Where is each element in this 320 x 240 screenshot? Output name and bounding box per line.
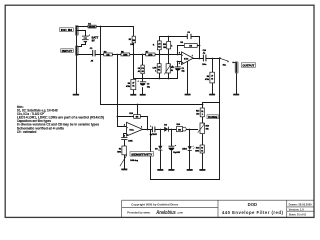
potentiometer R16 range [198, 123, 209, 134]
resistor R4 [104, 50, 113, 56]
wire R11 column rail to row to trimmer [168, 37, 170, 79]
node R11 tap junction [168, 54, 170, 56]
svg-text:R13: R13 [196, 111, 199, 113]
resistor R6 [180, 42, 197, 48]
wire battery positive from DC jack [78, 31, 86, 36]
wire tee to range network [203, 103, 220, 105]
svg-text:C9 : estimated: C9 : estimated [17, 130, 37, 134]
svg-text:1: 1 [141, 126, 142, 128]
node R4 R5 junction [117, 54, 119, 56]
svg-text:C3: C3 [147, 83, 149, 85]
capacitor C6 [187, 32, 191, 39]
svg-text:LED1: LED1 [182, 148, 187, 150]
wire bias stub to R10 [137, 105, 139, 115]
node IC1b output junction [199, 58, 201, 60]
svg-text:100k: 100k [195, 151, 199, 153]
wire LED1 column [189, 130, 191, 169]
svg-text:R9: R9 [207, 76, 209, 78]
diode D1 [88, 24, 96, 29]
svg-text:6: 6 [179, 53, 180, 55]
connector J2 INPUT jack [75, 46, 78, 56]
wire R13 column [202, 105, 204, 124]
svg-text:RANGE: RANGE [208, 115, 217, 119]
svg-text:10k: 10k [206, 129, 209, 131]
svg-text:DC IN: DC IN [61, 28, 72, 32]
ground D3 [157, 169, 163, 171]
svg-text:Version: 1.0: Version: 1.0 [289, 207, 305, 211]
wire IC1b power pin to ground [187, 61, 189, 94]
node IC1b inverting input junction [177, 54, 179, 56]
wire IC1a non-inverting input to C2 [124, 134, 127, 147]
svg-text:470k: 470k [205, 78, 209, 81]
svg-text:SENSITIVITY: SENSITIVITY [131, 152, 152, 156]
label INPUT [61, 49, 74, 53]
wire switch throw to output jack tip [233, 61, 235, 63]
diode D2 [164, 124, 168, 131]
resistor R14 [177, 123, 187, 132]
title block frame [122, 200, 314, 217]
svg-text:5k: 5k [171, 70, 173, 72]
svg-text:C8: C8 [138, 68, 140, 70]
svg-text:.com: .com [177, 211, 184, 214]
photoresistor LDR2 [153, 41, 161, 50]
switch S1a [219, 57, 234, 66]
label OUTPUT [241, 63, 255, 68]
svg-text:R2: R2 [158, 47, 160, 49]
wire mid bus under IC1b [134, 55, 178, 79]
svg-text:R16: R16 [206, 126, 209, 128]
node IC1a inverting input junction [117, 116, 119, 118]
resistor R5 [121, 51, 130, 56]
op-amp IC1b [179, 52, 193, 65]
capacitor C8 [138, 65, 145, 74]
svg-text:100n: 100n [202, 64, 206, 66]
label SENSITIVITY [130, 152, 154, 157]
connector J1 DC IN jack [75, 25, 78, 35]
svg-text:R2: R2 [119, 149, 121, 151]
capacitor C7 envelope polarized [150, 125, 158, 136]
wire range pot to R15 to ground [202, 134, 204, 169]
resistor R10 [129, 113, 140, 119]
capacitor C3 polarized [138, 80, 150, 88]
node D3 tap junction [160, 129, 162, 131]
svg-text:1: 1 [155, 70, 156, 72]
svg-text:10: 10 [201, 148, 203, 150]
svg-text:1M: 1M [136, 117, 139, 119]
node mid bus LDR1 junction [159, 78, 161, 80]
node mid bus C3 junction [142, 78, 144, 80]
svg-text:Analobius: Analobius [156, 210, 176, 216]
LED LED1 [182, 146, 195, 151]
resistor R11 [163, 41, 172, 49]
label RANGE [207, 115, 219, 119]
svg-text:0k: 0k [132, 86, 134, 88]
potentiometer R2 sensitivity [117, 146, 139, 166]
svg-text:10µ/16V: 10µ/16V [173, 152, 181, 154]
svg-text:.1µ: .1µ [203, 52, 206, 54]
svg-text:1M: 1M [189, 46, 192, 48]
wire IC1b feedback rail [160, 37, 200, 58]
wire C3 column to ground [142, 79, 144, 94]
svg-text:R1: R1 [158, 70, 160, 72]
capacitor C2 [121, 137, 133, 142]
svg-text:9V: 9V [92, 38, 95, 42]
node R9 tap junction [212, 58, 214, 60]
svg-text:7: 7 [192, 55, 193, 57]
node IC1a output junction [147, 129, 149, 131]
svg-text:47: 47 [132, 82, 134, 85]
svg-text:100k: 100k [117, 152, 121, 154]
node IC1b non-inverting input junction [177, 61, 179, 63]
resistor R13 [196, 108, 204, 117]
wire IC1b output row [193, 58, 219, 60]
svg-text:.01: .01 [141, 71, 144, 73]
svg-text:R3: R3 [129, 39, 131, 41]
node LED1 tap junction [189, 129, 191, 131]
node C1 R4 junction [100, 54, 102, 56]
svg-text:2k2: 2k2 [196, 114, 199, 116]
diode D3 [155, 146, 162, 151]
battery BATT 9V [82, 35, 99, 43]
wire R8 column to ground [133, 90, 135, 94]
ground input jack sleeve [73, 94, 79, 96]
svg-text:Copyright 2005 by Gottfried Di: Copyright 2005 by Gottfried Divos [131, 202, 179, 206]
svg-text:5: 5 [179, 63, 180, 65]
svg-text:k: k [171, 46, 172, 48]
wire envelope row [143, 129, 198, 131]
wire jack sleeves to ground [76, 35, 78, 94]
svg-text:10µ: 10µ [147, 86, 150, 88]
svg-text:47: 47 [211, 75, 213, 78]
resistor R15 [195, 145, 204, 153]
svg-text:OUTPUT: OUTPUT [243, 64, 255, 68]
capacitor C5 polarized [172, 66, 185, 73]
node supply rail junction [100, 26, 102, 28]
svg-text:.01: .01 [138, 71, 141, 73]
wire C9 column [171, 130, 173, 169]
wire IC1b non-inverting input to C5 [178, 62, 182, 79]
svg-text:1N4001: 1N4001 [89, 26, 96, 29]
svg-text:470k: 470k [126, 85, 130, 88]
svg-text:10k: 10k [163, 47, 166, 49]
wire bias column through signal row down to bus [100, 27, 102, 105]
node C8 tap junction [142, 54, 144, 56]
node R5 R3 junction [133, 54, 135, 56]
svg-text:440 Envelope Filter (red): 440 Envelope Filter (red) [222, 210, 284, 215]
svg-text:2: 2 [124, 124, 125, 126]
node C9 tap junction [171, 129, 173, 131]
svg-text:C5: C5 [182, 68, 184, 70]
svg-text:R11: R11 [163, 44, 166, 46]
photoresistor LDR1 [153, 64, 162, 73]
ground R15 [199, 169, 205, 171]
ground IC1b [185, 94, 191, 96]
svg-text:10k: 10k [178, 129, 181, 131]
capacitor C9 polarized [168, 145, 180, 154]
wire input signal row [78, 54, 181, 56]
node LDR1 tap junction [159, 54, 161, 56]
ground C9 [168, 169, 174, 171]
svg-text:Drawn: 28.03.2005: Drawn: 28.03.2005 [289, 202, 313, 206]
svg-text:2k: 2k [201, 111, 203, 113]
ground sensitivity pot [121, 169, 127, 171]
wire IC1a feedback loop [118, 117, 148, 130]
svg-text:Sheet: 01 of 01: Sheet: 01 of 01 [289, 212, 307, 216]
node bias bus range junction [202, 104, 204, 106]
wire top supply rail from DC jack to corner [78, 27, 134, 37]
svg-text:INPUT: INPUT [62, 49, 73, 53]
ground C3 [140, 94, 146, 96]
ground R9 [209, 94, 215, 96]
wire switch pivot down to bypass bus [219, 58, 221, 179]
label DC IN [59, 28, 73, 32]
resistor R9 [205, 72, 215, 83]
ground output jack [233, 94, 239, 96]
svg-text:C8: C8 [141, 68, 143, 70]
wire bias bus [101, 104, 203, 106]
capacitor C1 [90, 48, 95, 63]
capacitor C7 output polarized [202, 50, 206, 66]
resistor R7 [146, 51, 155, 56]
node feedback rail junction [168, 36, 170, 38]
svg-text:DOD: DOD [248, 202, 258, 207]
wire bypass return [151, 130, 220, 180]
trimmer R12 [164, 64, 174, 75]
wire C8 column [142, 55, 144, 79]
svg-text:C6: C6 [187, 32, 189, 34]
svg-text:2: 2 [202, 114, 203, 116]
svg-text:100k log: 100k log [130, 160, 138, 162]
svg-text:R15: R15 [196, 148, 199, 150]
svg-text:4µ7/16V: 4µ7/16V [150, 133, 158, 136]
wire R3 column to signal row [133, 43, 135, 55]
svg-text:Provided by www.: Provided by www. [127, 210, 150, 214]
svg-text:0k: 0k [211, 79, 213, 81]
wire R9 column to ground [212, 59, 214, 94]
wire node between R4 R5 down to IC1a inverting input [118, 55, 127, 127]
wire LDR column rail end [159, 37, 161, 79]
op-amp IC1a [124, 122, 143, 137]
resistor R3 [129, 36, 136, 46]
resistor R8 [126, 79, 136, 89]
wire R6 feedback loop [178, 46, 200, 55]
ground R8 [130, 94, 136, 96]
node R6 output junction [199, 45, 201, 47]
svg-text:0k: 0k [201, 151, 203, 153]
wire output jack sleeve to ground [236, 74, 238, 94]
node bias bus R10 junction [137, 104, 139, 106]
svg-text:10µ: 10µ [182, 71, 185, 73]
node mid bus trimmer junction [168, 78, 170, 80]
connector J3 OUTPUT jack [235, 62, 238, 73]
wire battery negative to input jack ring [78, 42, 86, 46]
svg-text:R8: R8 [128, 83, 130, 85]
wire sensitivity pot to ground [124, 155, 126, 169]
ground LED1 [187, 169, 193, 171]
wire D3 column [160, 130, 162, 169]
